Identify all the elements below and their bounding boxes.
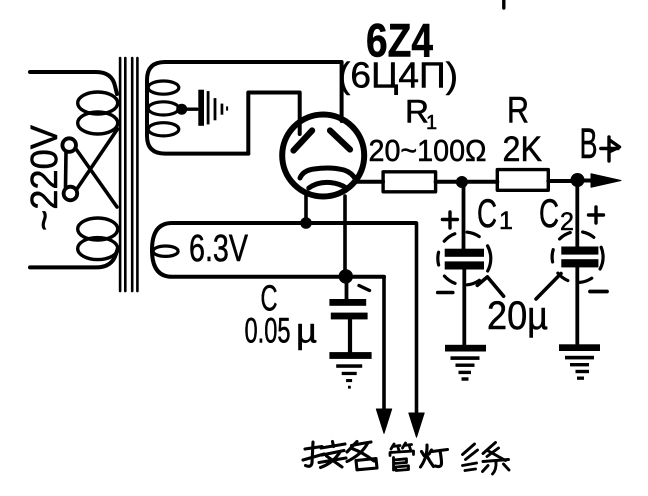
capacitor C2 dashed case circle [552,232,603,283]
svg-text:~220V: ~220V [24,124,66,231]
transformer core [119,58,122,291]
transformer T1 primary winding bottom half [78,218,118,240]
wire: filament supply line 2 with arrow [415,223,419,413]
ground: C1 [445,345,486,352]
wire: AC primary bottom lead [30,248,118,267]
resistor R1 body [383,172,436,192]
tube U1 6Z4 envelope [282,115,364,197]
wire: center tap to ground [182,107,197,110]
capacitor C lead (top) [345,276,349,299]
svg-text:1: 1 [426,112,437,134]
transformer 6.3V winding loop [153,246,178,256]
char 灯 [421,445,448,467]
junction: node 1 [456,176,468,188]
svg-text:0.05: 0.05 [245,312,291,351]
capacitor C2 lead (top) [575,180,579,247]
primary tap A wire (diagonal to selector bottom terminal) [77,129,118,190]
wire: B+ output arrow [578,179,601,183]
char 接 [303,442,346,468]
wire: R1 to node 1 [436,180,462,184]
artifact tick near node [359,286,370,291]
junction: node 2 [571,173,585,187]
junction: heater lead 1 on 6.3V top line [300,217,312,229]
svg-text:2K: 2K [503,130,543,169]
capacitor C1 dashed case circle [438,232,491,285]
svg-text:B: B [580,120,598,168]
artifact tick at top edge [502,0,505,8]
char 各 [347,442,377,470]
ground: HV center tap chassis ground [198,90,204,126]
capacitor C1 plates [445,249,484,257]
transformer HV secondary winding loops [148,81,179,94]
voltage selector terminal (top) [62,138,76,152]
wire: heater pin lead 2 / cathode tie [343,196,347,276]
leader line from 20u to C1 [477,277,503,296]
wire: HV top end to plate 2 of U1 [165,62,342,121]
tube U1 plate 2 [330,131,350,150]
voltage selector link wire [64,152,68,187]
char 丝 [463,443,510,475]
svg-text:20µ: 20µ [487,294,548,338]
svg-text:C: C [539,192,559,236]
capacitor C plates [329,299,366,306]
wire: R to node 2 [548,179,577,183]
label C2 minus [590,290,607,294]
leader line from 20u to C2 [536,274,561,300]
tube U1 cathode [300,168,356,180]
svg-text:µ: µ [296,312,317,351]
primary tap B wire (diagonal from selector top terminal) [75,148,117,207]
wire: AC primary top lead [30,72,117,94]
svg-text:20~100Ω: 20~100Ω [369,133,487,168]
ground: C2 [559,344,600,351]
label C1 plus [442,212,457,228]
label C2 plus [589,207,604,223]
wire: heater pin lead 1 [304,194,308,224]
tube U1 heater [309,182,347,188]
capacitor C lead (bottom) [348,319,352,352]
svg-text:1: 1 [499,207,513,235]
svg-text:6.3V: 6.3V [189,228,248,270]
svg-text:C: C [477,192,497,236]
capacitor C2 lead (bottom) [575,267,579,344]
wire: node 1 to R [462,180,497,184]
transformer HV secondary winding outline [147,62,248,154]
capacitor C1 lead (top) [462,182,466,249]
label C1 minus [438,291,453,295]
svg-text:(6Ц4П): (6Ц4П) [338,55,458,96]
svg-text:R: R [507,90,529,131]
resistor R body [497,170,548,191]
wire: HV bottom end to plate 1 of U1 (step) [248,93,299,154]
voltage selector terminal (bottom) [64,187,78,201]
junction: heater lead 2 on 6.3V bottom line [339,269,353,283]
capacitor C2 plates [561,247,598,255]
svg-text:2: 2 [560,208,574,236]
transformer 6.3V winding outline [152,223,416,277]
tube U1 plate 1 [294,131,313,151]
char 管 [390,443,414,471]
transformer T1 primary winding top half [78,92,118,114]
ground: C [329,352,371,359]
label: Chinese caption 接各管灯丝 (connect to tube filaments) [303,442,509,475]
wire: filament supply line 1 with arrow [382,277,386,410]
junction: HV winding center tap [176,104,187,115]
capacitor C1 lead (bottom) [462,270,466,346]
wire: cathode output to R1 [356,180,383,184]
